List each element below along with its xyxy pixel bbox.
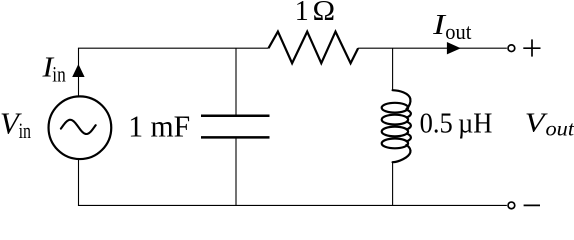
svg-text:1: 1 xyxy=(295,0,309,27)
svg-text:0.5 µH: 0.5 µH xyxy=(420,107,493,139)
svg-text:1 mF: 1 mF xyxy=(128,109,190,144)
AC source sine squiggle xyxy=(61,120,96,134)
svg-text:in: in xyxy=(52,62,66,87)
current arrow I_in (up) xyxy=(72,64,84,77)
wire capacitor branch upper xyxy=(235,48,237,116)
wire capacitor branch lower xyxy=(235,137,237,205)
wire inductor branch lower xyxy=(392,162,394,206)
resistor R1 zigzag (1 ohm) xyxy=(269,32,359,64)
capacitor C1 top plate xyxy=(201,114,270,117)
wire left vertical lower xyxy=(78,160,80,206)
svg-text:out: out xyxy=(445,19,471,44)
svg-text:out: out xyxy=(546,117,574,141)
wire inductor branch upper xyxy=(392,48,394,90)
inductor L1 coil xyxy=(393,90,411,109)
svg-text:in: in xyxy=(19,118,31,143)
svg-text:Ω: Ω xyxy=(313,0,336,27)
output terminal + (open circle) xyxy=(508,45,515,52)
wire left vertical upper xyxy=(78,48,80,96)
output terminal - (open circle) xyxy=(508,202,515,209)
minus sign at - terminal xyxy=(524,204,540,206)
capacitor C1 bottom plate xyxy=(201,136,270,139)
current arrow I_out (right) xyxy=(447,42,461,54)
AC voltage source V1 circle xyxy=(49,96,112,159)
wire bottom xyxy=(78,204,507,206)
wire top-right (resistor to + terminal) xyxy=(358,47,507,49)
plus sign at + terminal xyxy=(523,47,540,49)
wire top-left (source to resistor) xyxy=(78,47,269,49)
